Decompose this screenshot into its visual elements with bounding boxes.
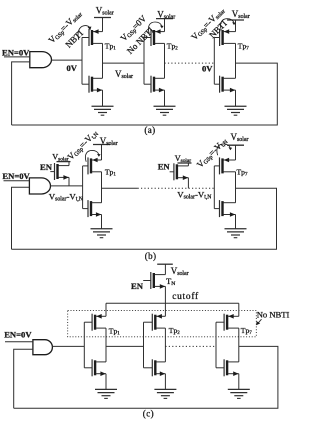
wire nmos source to ground (c) cell 7 xyxy=(238,374,240,390)
nmos (c) cell 7 xyxy=(216,359,239,376)
wire gate column (a) cell 1 xyxy=(81,38,83,85)
wire Tp1 output to Tp2 gate (a) xyxy=(103,62,145,64)
NBTI stress arrow on Tp2 (a) xyxy=(148,22,163,33)
nmos (c) cell 2 xyxy=(144,359,166,376)
wire nmos source to ground (c) cell 2 xyxy=(164,374,166,390)
svg-text:0V: 0V xyxy=(202,64,213,74)
wire feedback to lower AND input (b) xyxy=(12,187,30,249)
ground cell1 (b) xyxy=(91,229,113,238)
wire Tp1 output (b) xyxy=(102,187,138,189)
wire gate column (a) cell 2 xyxy=(143,38,145,85)
wire feedback to lower AND input (c) xyxy=(14,349,33,408)
wire nmos source to ground (c) cell 1 xyxy=(105,374,107,390)
pmos Tp1 (b) xyxy=(83,157,102,174)
wire nmos source to ground (a) cell 1 xyxy=(102,90,104,106)
svg-text:EN: EN xyxy=(40,162,53,172)
pass nmos right (b) xyxy=(174,163,189,180)
dotted wire Tp2 output to Tp7 gate (a) xyxy=(165,62,215,64)
wire gate column (c) cell 2 xyxy=(143,322,145,368)
pmos Tp2 (a) xyxy=(144,29,165,46)
arrow from No NBTI label to dashed box (c) xyxy=(258,319,262,323)
NBTI stress arrow on Tp1 (b) xyxy=(85,150,100,161)
wire gate line left pass nmos (b) xyxy=(50,171,54,173)
nmos cell7 (b) xyxy=(214,200,235,217)
ground (a) cell 7 xyxy=(225,106,247,115)
dashed box around PMOS row (c) xyxy=(68,311,257,337)
ground (c) cell 1 xyxy=(95,389,117,398)
svg-text:EN=0V: EN=0V xyxy=(2,47,30,57)
wire drain column (c) cell 2 xyxy=(164,328,166,362)
V_solar supply rail Tp1 (b) xyxy=(93,145,110,161)
wire cell1 output to Tp2 gate (c) xyxy=(106,345,144,347)
wire nmos source to ground cell7 (b) xyxy=(235,215,237,229)
svg-text:(b): (b) xyxy=(145,251,157,261)
wire AND output to Tp1 gate (a) xyxy=(52,59,83,61)
V_solar supply left pass (b) xyxy=(57,161,71,163)
wire Tp7 output feedback loop (c) xyxy=(14,346,278,408)
wire cutoff drop to Tp7 source (c) xyxy=(238,303,240,316)
wire cutoff drop to Tp2 source (c) xyxy=(164,303,166,316)
pass nmos left (b) xyxy=(55,163,70,180)
wire drain column (a) cell 7 xyxy=(235,43,237,78)
AND gate U3 (c) xyxy=(33,340,53,355)
V_solar supply rail (a) cell 2 xyxy=(156,19,173,32)
pmos Tp7 (c) xyxy=(216,314,239,331)
pmos Tp1 (a) xyxy=(82,29,103,46)
ground cell7 (b) xyxy=(225,229,247,238)
ground (a) cell 1 xyxy=(92,106,114,115)
svg-text:EN=0V: EN=0V xyxy=(2,171,30,181)
nmos (a) cell 7 xyxy=(214,76,235,93)
svg-text:(c): (c) xyxy=(143,409,154,419)
cutoff nmos T_N (c) xyxy=(151,272,166,289)
nmos (a) cell 1 xyxy=(82,76,103,93)
nmos (a) cell 2 xyxy=(144,76,165,93)
svg-text:EN=0V: EN=0V xyxy=(4,330,32,340)
V_solar supply right pass (b) xyxy=(178,162,192,164)
NBTI stress arrow on Tp1 (a) xyxy=(78,26,91,40)
pmos Tp7 (b) xyxy=(214,157,235,174)
NBTI stress arrow on Tp7 (b) xyxy=(217,144,232,155)
ground (a) cell 2 xyxy=(154,106,176,115)
pmos Tp1 (c) xyxy=(84,314,106,331)
svg-text:cutoff: cutoff xyxy=(172,291,199,302)
dotted wire to Tp7 gate (b) xyxy=(138,187,215,189)
wire gate column (a) cell 7 xyxy=(213,38,215,85)
wire gate column cell1 (b) xyxy=(82,166,84,209)
wire AND output to gate bus (b) xyxy=(51,185,83,187)
wire right pass drain to supply (b) xyxy=(187,163,189,166)
wire nmos source to ground (a) cell 2 xyxy=(164,90,166,106)
wire Tp7 output feedback loop (b) xyxy=(12,188,277,249)
V_solar supply rail (a) cell 7 xyxy=(227,20,244,32)
wire cutoff drop to Tp1 source (c) xyxy=(105,303,107,316)
svg-text:EN: EN xyxy=(158,162,171,172)
wire drain column Tp7 (b) xyxy=(235,172,237,203)
wire Tp7 output feedback loop (a) xyxy=(12,63,278,125)
ground (c) cell 7 xyxy=(228,389,250,398)
wire gate line right pass nmos (b) xyxy=(170,171,174,173)
wire left pass drain to supply (b) xyxy=(68,162,70,166)
wire gate column cell7 (b) xyxy=(213,166,215,209)
wire feedback to lower AND input (a) xyxy=(12,62,30,125)
AND gate U2 (b) xyxy=(29,178,50,194)
svg-text:(a): (a) xyxy=(144,125,155,135)
NBTI stress arrow on Tp7 (a) xyxy=(220,19,235,30)
wire gate column (c) cell 7 xyxy=(215,322,217,368)
wire gate column (c) cell 1 xyxy=(83,322,85,368)
wire drain column (c) cell 7 xyxy=(238,328,240,362)
dotted wire cell2 output to Tp7 gate (c) xyxy=(165,345,216,347)
ground (c) cell 2 xyxy=(154,389,176,398)
V_solar supply T_N (c) xyxy=(157,263,173,265)
wire T_N drain to supply (c) xyxy=(164,264,166,274)
wire cutoff bus (c) xyxy=(106,302,239,304)
wire EN input (a) xyxy=(4,56,30,58)
wire left pass source down to gate bus (b) xyxy=(68,177,70,186)
wire EN input (b) xyxy=(4,180,30,182)
wire EN input (c) xyxy=(5,341,33,343)
wire nmos source to ground (a) cell 7 xyxy=(235,90,237,106)
V_solar supply rail Tp7 (b) xyxy=(227,145,244,160)
wire nmos source to ground cell1 (b) xyxy=(101,215,103,229)
svg-text:EN: EN xyxy=(131,281,144,291)
V_solar supply rail (a) cell 1 xyxy=(94,18,111,32)
wire gate line T_N (c) xyxy=(143,280,151,282)
svg-text:0V: 0V xyxy=(67,63,78,73)
nmos (c) cell 1 xyxy=(84,359,106,376)
wire drain column (a) cell 2 xyxy=(164,43,166,78)
wire AND output to Tp1 gate (c) xyxy=(52,345,84,347)
svg-text:No NBTI: No NBTI xyxy=(257,310,290,320)
wire drain column (c) cell 1 xyxy=(105,328,107,362)
wire drain column (a) cell 1 xyxy=(102,43,104,78)
pmos Tp7 (a) xyxy=(214,29,235,46)
pmos Tp2 (c) xyxy=(144,314,166,331)
nmos cell1 (b) xyxy=(83,200,102,217)
wire T_N source down to cutoff bus (c) xyxy=(164,286,166,303)
wire right pass source down to gate bus (b) xyxy=(187,178,189,189)
wire drain column Tp1 (b) xyxy=(101,172,103,203)
AND gate U1 (a) xyxy=(30,52,52,68)
